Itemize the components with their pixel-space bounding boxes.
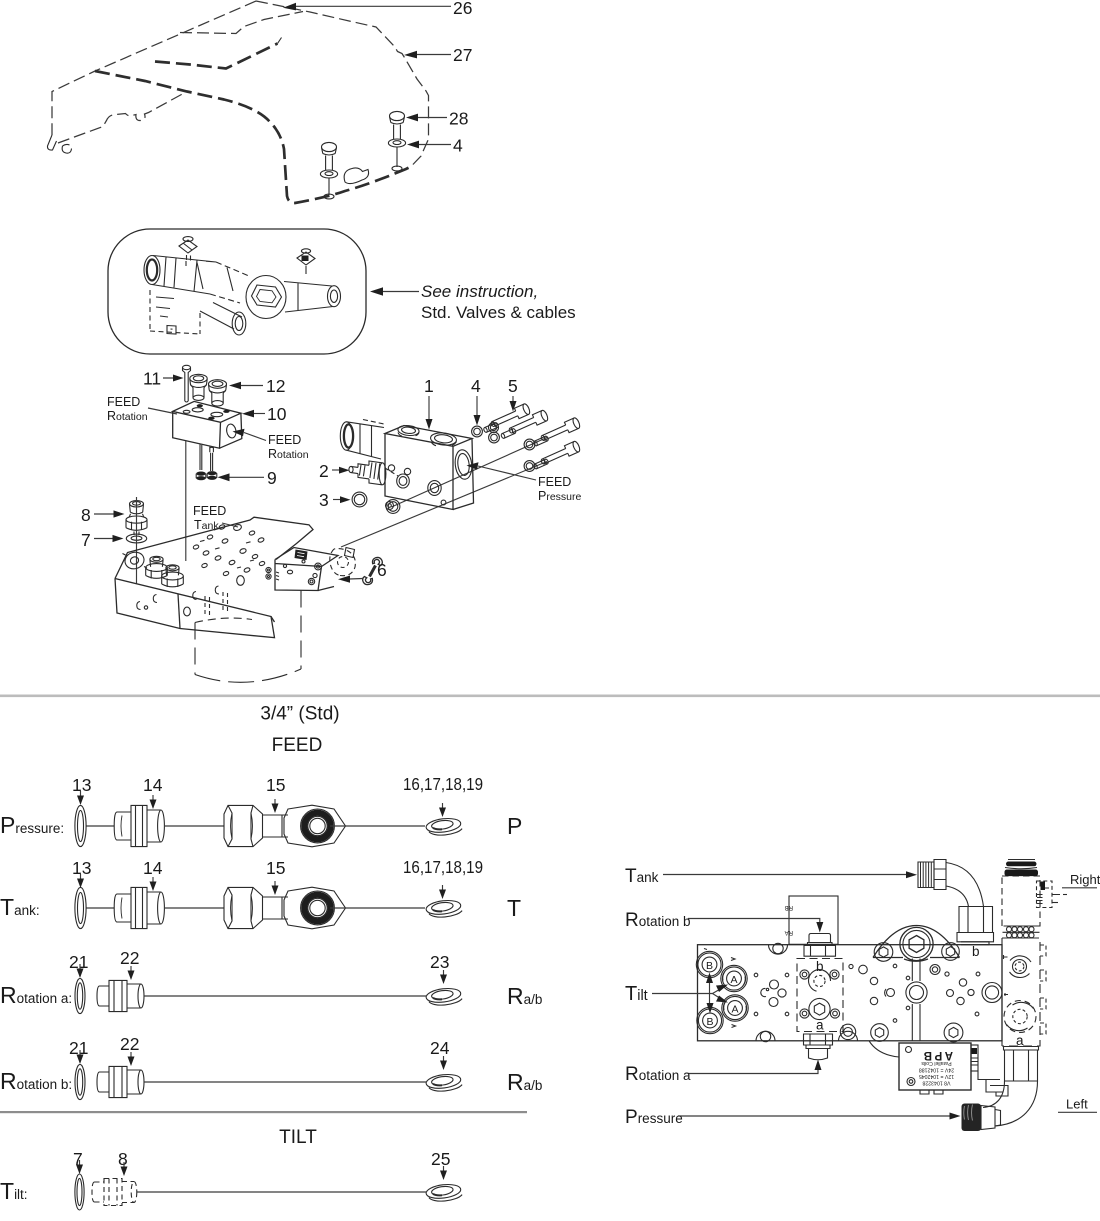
fitting 12a xyxy=(190,374,207,400)
svg-text:4: 4 xyxy=(471,376,481,396)
block 10 top holes xyxy=(183,408,223,417)
svg-text:Rotation a:: Rotation a: xyxy=(0,982,72,1008)
fitting 22 xyxy=(97,980,144,1011)
svg-text:b: b xyxy=(816,959,824,974)
APB right connector xyxy=(971,1045,1008,1096)
Tank leader xyxy=(663,874,909,876)
cover bottom-left edge with tabs xyxy=(58,92,186,143)
svg-text:Right: Right xyxy=(1070,872,1100,887)
cover bold front edge xyxy=(95,71,411,203)
rotation a fitting below block xyxy=(804,1034,833,1060)
svg-text:8: 8 xyxy=(118,1149,128,1169)
fitting 14 xyxy=(114,805,164,846)
divider line full width xyxy=(0,695,1100,698)
svg-text:See instruction,: See instruction, xyxy=(421,282,538,301)
svg-text:a: a xyxy=(816,1018,824,1033)
block 10 side port xyxy=(226,423,237,438)
svg-text:Rotation a: Rotation a xyxy=(625,1064,691,1085)
svg-text:7: 7 xyxy=(81,530,91,550)
dashed fitting 8 (row) xyxy=(92,1179,137,1206)
arch center bolt xyxy=(900,927,933,960)
svg-text:FEED: FEED xyxy=(538,475,571,489)
grommets 9 xyxy=(196,471,217,480)
filter head boss xyxy=(330,549,340,576)
mini valve connecting lines xyxy=(186,261,306,291)
arch bracket xyxy=(873,926,960,962)
mounting tab top xyxy=(769,945,788,955)
svg-text:A: A xyxy=(731,1004,738,1016)
end plate xyxy=(1002,938,1046,1046)
solenoid washer stack xyxy=(1003,926,1040,938)
label 12 leader xyxy=(240,385,263,387)
svg-text:16,17,18,19: 16,17,18,19 xyxy=(403,857,483,877)
svg-text:Ra/b: Ra/b xyxy=(507,1069,542,1095)
RB RA box xyxy=(789,896,838,944)
label 26 leader xyxy=(293,5,451,7)
mounting line from block 10 to manifold xyxy=(185,441,187,561)
block 1 front holes xyxy=(386,465,446,510)
solenoid connector xyxy=(1037,881,1070,908)
svg-text:27: 27 xyxy=(453,45,472,65)
svg-text:Tank: Tank xyxy=(625,866,659,887)
mini valve top-left fitting xyxy=(179,240,197,261)
filter canister xyxy=(194,623,196,675)
mini valve central round body xyxy=(246,276,286,319)
manifold joint circles xyxy=(266,567,279,580)
label 9 leader xyxy=(228,476,264,478)
rotation b fitting above block xyxy=(804,934,836,957)
arrow 14 xyxy=(150,795,157,809)
label 4 leader xyxy=(416,144,451,146)
o-ring 3a xyxy=(352,492,367,507)
Rotation b leader xyxy=(688,919,820,927)
svg-text:12: 12 xyxy=(266,376,285,396)
port chevrons xyxy=(704,949,736,1028)
cover top cutout thin edge xyxy=(180,12,303,34)
label 3 leader xyxy=(333,499,345,501)
manifold port for plug 8 xyxy=(123,550,148,571)
svg-text:14: 14 xyxy=(143,775,163,795)
long alignment line upper xyxy=(392,437,549,507)
label 5 leader xyxy=(512,396,514,405)
Tilt leader fork xyxy=(652,993,713,995)
svg-text:9: 9 xyxy=(267,468,277,488)
mini valve main body xyxy=(152,256,216,295)
mini valve lower-left block xyxy=(150,290,200,334)
sub-block top port xyxy=(809,970,831,992)
row line c xyxy=(330,825,425,827)
svg-text:5: 5 xyxy=(508,376,518,396)
bolt 28 xyxy=(390,111,405,139)
svg-text:Pressure: Pressure xyxy=(625,1107,683,1128)
tube seal 16-19 xyxy=(425,899,462,917)
svg-text:B: B xyxy=(706,1016,713,1028)
mounting tab bottom 1 xyxy=(756,1031,775,1041)
svg-text:1: 1 xyxy=(424,376,434,396)
svg-text:26: 26 xyxy=(453,0,472,18)
svg-text:Rotation b:: Rotation b: xyxy=(0,1068,72,1094)
FEED Rotation leader xyxy=(148,408,177,414)
Pressure leader xyxy=(678,1115,953,1117)
solenoid coil cap xyxy=(1006,862,1037,867)
solenoid valve dashed body xyxy=(1002,876,1040,926)
long alignment line lower xyxy=(341,462,547,548)
washer 4 (right) xyxy=(388,139,405,171)
o-ring 13 xyxy=(75,805,86,846)
block 1 side port xyxy=(454,449,474,480)
svg-text:Pressure: Pressure xyxy=(538,489,582,503)
svg-text:Std. Valves & cables: Std. Valves & cables xyxy=(421,303,576,322)
plug 8 xyxy=(126,501,147,535)
Tank male connector xyxy=(918,860,946,890)
svg-text:A: A xyxy=(730,974,737,986)
svg-text:14: 14 xyxy=(143,858,163,878)
main block outline xyxy=(698,945,1003,1041)
row line b xyxy=(164,825,224,827)
center sub-block dashed xyxy=(797,959,843,1032)
arch end bolt left xyxy=(874,943,893,962)
svg-text:Pressure:: Pressure: xyxy=(0,812,64,838)
mini valve top-right fitting xyxy=(297,252,315,265)
mounting tab bottom 2 xyxy=(839,1031,858,1041)
port B2 xyxy=(697,1007,723,1033)
svg-text:T: T xyxy=(507,895,521,921)
svg-text:22: 22 xyxy=(120,948,139,968)
cover foot hook left xyxy=(47,135,56,150)
block 10 stems xyxy=(200,445,202,471)
tube seal 16-19 xyxy=(425,817,462,835)
svg-text:15: 15 xyxy=(266,775,285,795)
Rotation a leader xyxy=(688,1066,818,1074)
svg-text:Ra/b: Ra/b xyxy=(507,983,542,1009)
tube seal 24 xyxy=(425,1073,462,1091)
svg-text:2: 2 xyxy=(319,461,329,481)
svg-text:RB: RB xyxy=(785,904,793,910)
spacers xyxy=(483,422,549,469)
end plate port a xyxy=(1004,993,1036,1033)
svg-text:Rotation: Rotation xyxy=(268,447,309,461)
svg-text:TILT: TILT xyxy=(279,1127,317,1148)
svg-text:25: 25 xyxy=(431,1149,450,1169)
port A1 xyxy=(721,965,747,991)
svg-text:3/4” (Std): 3/4” (Std) xyxy=(260,704,339,725)
manifold hex plug B xyxy=(162,565,184,587)
svg-text:3: 3 xyxy=(319,490,329,510)
svg-text:FEED: FEED xyxy=(272,735,323,756)
hex bolt bottom b xyxy=(944,1023,963,1042)
label 8 leader xyxy=(94,513,118,515)
Tank elbow xyxy=(946,863,984,907)
manifold main outline xyxy=(115,517,313,638)
o-ring 21 xyxy=(75,978,85,1013)
svg-text:24V = 1042188: 24V = 1042188 xyxy=(919,1067,954,1073)
svg-text:11: 11 xyxy=(143,369,161,389)
o-ring 7 (row) xyxy=(75,1174,84,1210)
svg-text:13: 13 xyxy=(72,858,91,878)
manifold front-face ports xyxy=(137,576,245,616)
cover bold notch edge xyxy=(155,44,278,69)
APB block xyxy=(899,1043,971,1094)
pressure dark fitting xyxy=(962,1104,1001,1132)
svg-text:FEED: FEED xyxy=(268,433,301,447)
svg-text:12V = 1042045: 12V = 1042045 xyxy=(919,1073,954,1079)
sub-block top bolts xyxy=(800,970,809,979)
svg-text:22: 22 xyxy=(120,1034,139,1054)
svg-text:13: 13 xyxy=(72,775,91,795)
manifold hex plug A xyxy=(146,556,168,578)
row line a xyxy=(87,825,115,827)
cover cutout connector xyxy=(278,38,282,44)
arrow 15 xyxy=(272,799,279,813)
tube seal 23 xyxy=(425,987,462,1005)
washers 4 xyxy=(472,423,535,472)
bolt (lower, mate of 28) xyxy=(320,142,337,199)
block 10 xyxy=(173,401,242,448)
svg-text:FEED: FEED xyxy=(193,504,226,518)
arch end bolt right xyxy=(942,943,960,961)
mini valve assembly inside box xyxy=(144,237,341,335)
label 28 leader xyxy=(415,117,447,119)
svg-text:V8 1043228: V8 1043228 xyxy=(922,1080,950,1086)
port B1 xyxy=(696,951,722,977)
svg-text:APB: APB xyxy=(921,1049,953,1061)
label 7 leader xyxy=(94,538,117,540)
svg-text:4: 4 xyxy=(453,136,463,156)
label 1 leader xyxy=(428,396,430,423)
elbow 15 xyxy=(224,805,346,847)
svg-text:B: B xyxy=(706,960,713,972)
svg-text:FEED: FEED xyxy=(107,395,140,409)
center joint port xyxy=(906,982,927,1003)
svg-text:Tilt: Tilt xyxy=(625,983,648,1005)
label 27 leader xyxy=(415,54,451,56)
center joint lines xyxy=(912,959,920,1041)
svg-text:23: 23 xyxy=(430,952,449,972)
APB cable curve xyxy=(869,1041,899,1057)
svg-text:Tank:: Tank: xyxy=(0,894,40,920)
sub-block bottom bolts xyxy=(800,1009,809,1018)
svg-text:16,17,18,19: 16,17,18,19 xyxy=(403,774,483,794)
fitting 12b xyxy=(209,380,227,406)
o-ring 13 xyxy=(75,887,86,928)
instruction arrow leader xyxy=(381,291,419,293)
manifold filter head block xyxy=(275,548,338,591)
instruction rounded box xyxy=(108,229,366,354)
tilt divider line xyxy=(0,1111,527,1113)
filter head front details xyxy=(283,550,321,585)
wrench 6 icon xyxy=(363,557,383,584)
cover outline top right (part 27 profile) xyxy=(256,1,429,167)
o-ring 3b xyxy=(386,500,400,514)
mini valve lower cylinder xyxy=(200,303,242,330)
svg-text:6: 6 xyxy=(377,560,387,580)
svg-text:28: 28 xyxy=(449,109,468,129)
arrow 16-19 xyxy=(439,803,446,817)
block 1 body xyxy=(385,426,474,510)
arrow 13 xyxy=(77,791,84,805)
svg-text:Rotation: Rotation xyxy=(107,409,148,423)
main block small holes xyxy=(754,964,1002,1022)
mini valve left cap xyxy=(144,256,160,285)
washer 7 xyxy=(126,534,146,543)
solenoid cylinder xyxy=(340,420,384,460)
plug 8 centerline xyxy=(136,497,138,584)
FEED Pressure leader xyxy=(478,466,536,480)
svg-text:Left: Left xyxy=(1066,1097,1088,1112)
bolts 5 xyxy=(489,403,581,467)
fitting 22 xyxy=(97,1066,144,1097)
label 11 leader xyxy=(163,377,180,379)
fitting 14 xyxy=(114,887,164,928)
sub-block bottom port xyxy=(809,998,830,1019)
pressure fitting stack xyxy=(1004,1047,1039,1082)
svg-text:RA: RA xyxy=(785,929,793,935)
pressure elbow xyxy=(995,1081,1038,1126)
label 2 leader xyxy=(332,469,344,471)
valve cartridge 2 xyxy=(349,461,398,485)
pin 11 xyxy=(183,365,191,402)
mini valve right cylinder xyxy=(284,282,333,313)
cover outline left (part 26) xyxy=(52,1,256,135)
elbow 15 xyxy=(224,887,346,929)
Tank elbow nut xyxy=(957,907,994,945)
svg-text:Parallel Coils: Parallel Coils xyxy=(921,1060,952,1066)
svg-text:P: P xyxy=(507,813,522,839)
svg-text:8: 8 xyxy=(81,505,91,525)
svg-text:10: 10 xyxy=(267,404,287,424)
svg-text:Rotation b: Rotation b xyxy=(625,910,691,931)
manifold top-face small ports xyxy=(193,524,266,577)
FEED Tank leader xyxy=(222,523,238,527)
port A2 xyxy=(722,995,748,1021)
end plate port b xyxy=(1004,955,1032,978)
svg-text:a: a xyxy=(1016,1033,1024,1048)
cover hole outline xyxy=(344,168,368,184)
FEED Rotation label right leader xyxy=(244,433,266,441)
svg-text:b: b xyxy=(972,944,980,959)
svg-text:24: 24 xyxy=(430,1038,450,1058)
svg-text:Tilt:: Tilt: xyxy=(0,1178,28,1204)
label 6 leader xyxy=(349,578,363,581)
block 1 top bosses xyxy=(397,425,457,447)
svg-text:15: 15 xyxy=(266,858,285,878)
label 10 leader xyxy=(252,413,265,415)
cover foot peg xyxy=(62,144,71,153)
hex bolt bottom a xyxy=(871,1024,889,1042)
tube seal 25 xyxy=(425,1183,462,1201)
label 4 leader (exploded) xyxy=(476,396,478,419)
o-ring 21 xyxy=(75,1064,85,1099)
